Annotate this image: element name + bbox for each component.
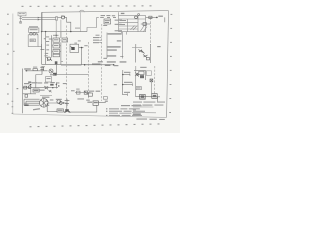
lower table wire [141, 23, 151, 25]
faint drop wire [80, 12, 82, 31]
labels above control row [38, 82, 60, 84]
component with X [150, 79, 153, 82]
comp left of meter [43, 67, 45, 71]
component box [139, 71, 144, 74]
paper background [0, 0, 180, 133]
power supply box PS1 [18, 12, 26, 16]
cluster at dash crossing [98, 61, 103, 62]
notes item 1 [106, 108, 140, 109]
labels [45, 99, 62, 106]
wire heater [25, 70, 48, 72]
rheostat R2 [71, 47, 74, 50]
small circle [137, 74, 139, 76]
box on bottom wire [57, 109, 63, 112]
junction bar [53, 34, 59, 36]
stubs below table [121, 32, 126, 35]
wire from PS1 down [20, 16, 22, 24]
control wire row [23, 87, 58, 89]
inline terminal marks [100, 16, 116, 18]
cable marks [120, 55, 123, 57]
vertical rail A [41, 12, 43, 64]
label left of box [87, 102, 92, 103]
rheostat box [70, 44, 79, 52]
assembly dash line 2 [87, 42, 89, 100]
terminal box TB1 [28, 35, 38, 47]
diag marks [49, 90, 52, 92]
left low rail [22, 69, 24, 114]
double circle comp [57, 100, 61, 104]
regulator box U2 [104, 19, 111, 24]
assembly dash line 4 [154, 66, 156, 94]
transformer T2 area wire [134, 71, 146, 80]
junction cluster [40, 49, 44, 51]
bottom small box [93, 101, 98, 105]
assembly dash line 3 [100, 24, 103, 101]
tiny label [46, 45, 49, 46]
regulator label row [101, 15, 116, 16]
tiny label [46, 49, 49, 50]
right mid rail 2 [149, 44, 151, 63]
long wire to dash rail [57, 74, 89, 76]
component on bus [55, 61, 58, 64]
stack left rail [51, 35, 53, 57]
mid comp row [136, 87, 141, 90]
relay coil K2 [53, 38, 60, 42]
assembly dash line 5 [149, 18, 151, 46]
relay coil K3 [53, 44, 60, 48]
component cluster dark [140, 94, 146, 98]
relay coil K4 [53, 49, 60, 53]
bus second conductor [61, 65, 82, 67]
connector pins circles [30, 33, 32, 35]
terminal rail with stubs [122, 70, 124, 95]
relay coil K5 [53, 54, 60, 57]
label [63, 83, 67, 84]
aux box right of T2 [146, 71, 151, 76]
notes item 2 [106, 111, 145, 112]
transistor Q1 [47, 57, 50, 60]
tiny label [49, 39, 52, 40]
connector chevrons [19, 17, 22, 19]
stub right of dash [98, 101, 105, 103]
label under box [103, 25, 107, 26]
row label [71, 90, 75, 91]
hatch strokes in table [131, 25, 148, 32]
bottom margin zone ticks [30, 123, 160, 127]
border frame bottom [13, 114, 167, 117]
aux box right [62, 38, 68, 42]
bus end cluster [105, 64, 111, 66]
italic annotation [33, 108, 40, 110]
diode CR1 [139, 50, 145, 54]
relay wire row [75, 92, 91, 94]
comp at 46,101 [46, 100, 48, 102]
label2 [39, 90, 45, 91]
transistor cluster 67,100 [65, 99, 70, 106]
title block upper text [133, 99, 165, 106]
component to rail [147, 58, 150, 60]
junction dots [41, 31, 72, 32]
stub 3 [123, 94, 128, 96]
connector label text [29, 26, 38, 27]
long bottom wire [70, 105, 97, 112]
right rail lower [135, 66, 137, 97]
tiny label [84, 45, 87, 46]
assembly dash line 1 [65, 26, 67, 101]
label above T2 [140, 67, 146, 68]
wire TB1 to rail [38, 44, 42, 49]
table row labels [115, 20, 126, 32]
relay K6 [152, 94, 157, 99]
meter circle [49, 69, 53, 73]
signature line below frame [136, 119, 164, 121]
corner mark [61, 61, 63, 63]
relay contact K1 [62, 16, 65, 19]
table rows [119, 19, 146, 29]
inline component F1 [149, 16, 152, 18]
tiny label [44, 38, 46, 39]
arrow label dark [24, 104, 28, 106]
wire stub down [157, 97, 159, 102]
bus wire horizontal [42, 31, 87, 33]
fuse F3 [24, 86, 27, 89]
dark box under meter [53, 73, 57, 76]
notes list title [121, 105, 142, 106]
wire X-box to relay [150, 82, 152, 94]
wire from K1 right and down [65, 18, 71, 32]
label row [24, 82, 37, 84]
label above heater wire [33, 67, 37, 68]
contact box on row [77, 91, 81, 94]
notes item 3 [106, 115, 142, 116]
diode CR2 [143, 55, 148, 58]
net label small [157, 46, 160, 47]
row label2 [76, 89, 79, 90]
faint feed wire [132, 47, 142, 49]
wire pair lower [22, 19, 57, 21]
table divider [128, 16, 138, 32]
node diamond [20, 22, 22, 24]
dark mark [50, 84, 53, 86]
top margin zone ticks [22, 5, 152, 7]
switch S1 [40, 66, 44, 75]
wire under meter [56, 65, 58, 75]
inline component F2 [143, 23, 146, 26]
wire pair upper [22, 17, 57, 19]
wire stub down [164, 17, 166, 22]
relay stack feed wires [56, 20, 61, 38]
right mid rail [135, 44, 137, 63]
wire drop [23, 88, 36, 94]
cable table column [107, 32, 123, 59]
arrowheads on pair [38, 17, 39, 20]
box cluster 90,93 [88, 93, 92, 96]
connector J1 box [29, 28, 39, 32]
indicator lamp DS1 [135, 16, 138, 19]
junction cluster2 [52, 84, 59, 89]
notes item 2b [109, 113, 141, 114]
wire node down to bus [81, 48, 83, 64]
title block rule 2 [132, 112, 156, 114]
border frame right [167, 11, 169, 118]
diagonal strokes [135, 73, 139, 77]
wire drop at 47.2 [47, 103, 57, 112]
labels near 96,90 [96, 91, 101, 92]
faint label row [75, 28, 80, 29]
label above meter [50, 74, 55, 75]
stack pin labels [44, 36, 49, 56]
motor feed wires [24, 99, 40, 105]
aux box lower left [46, 77, 52, 82]
wire jog up [87, 28, 97, 32]
feed verticals [24, 99, 26, 105]
bell / arcs [64, 111, 70, 113]
long bus wire lower [42, 63, 114, 65]
pilot lamp [28, 86, 31, 89]
stub labels [114, 65, 133, 93]
node cluster [81, 47, 83, 49]
stub 1 [123, 74, 130, 76]
net label stubs [93, 35, 100, 43]
border frame top [42, 11, 169, 13]
tiny label [78, 40, 81, 41]
wire from table to right [146, 16, 157, 18]
wire jog [36, 75, 42, 88]
relay box K7 [33, 89, 39, 92]
wire to contact K1 [58, 17, 62, 19]
contact cluster [44, 86, 48, 89]
title small text [133, 109, 136, 110]
table vertical left [118, 12, 120, 15]
junction dot [156, 17, 158, 19]
misc mark [28, 81, 31, 83]
left bracket wire [97, 17, 99, 27]
wire rheostat to node [79, 47, 84, 49]
motor M1 [40, 99, 49, 108]
title block rule 1 [133, 106, 153, 108]
cluster near dash rail [103, 97, 107, 100]
stack right rail [60, 42, 62, 64]
label 77,98 [77, 98, 84, 99]
stub 2 [123, 84, 133, 86]
cross wire mid [84, 64, 101, 66]
net label [158, 16, 163, 17]
vertical rail B [45, 32, 47, 65]
right margin row ticks [169, 14, 172, 113]
wire motor right [48, 102, 67, 104]
signal table top right [119, 16, 146, 32]
resistor R3 [33, 69, 37, 71]
label row above motor line [40, 95, 52, 97]
connector bar at pair end [56, 17, 58, 21]
row cluster dark [84, 91, 88, 94]
wire drop at 66.8 [66, 103, 68, 112]
note squiggle [24, 68, 31, 69]
title text row [133, 114, 141, 115]
dark component [140, 75, 144, 78]
border frame left [12, 14, 14, 115]
lower right wire [135, 96, 160, 98]
left margin row ticks [7, 14, 18, 114]
stack pin stubs [52, 40, 61, 51]
stub end marks [127, 73, 132, 95]
arrow text [45, 87, 49, 88]
top rail wire [41, 12, 43, 31]
pin marks [36, 33, 38, 35]
lamp circle small [138, 14, 140, 16]
table header label [121, 13, 125, 14]
label 86,99 [86, 100, 90, 101]
cap C1 [25, 94, 28, 97]
wire hop on top line [80, 10, 85, 12]
